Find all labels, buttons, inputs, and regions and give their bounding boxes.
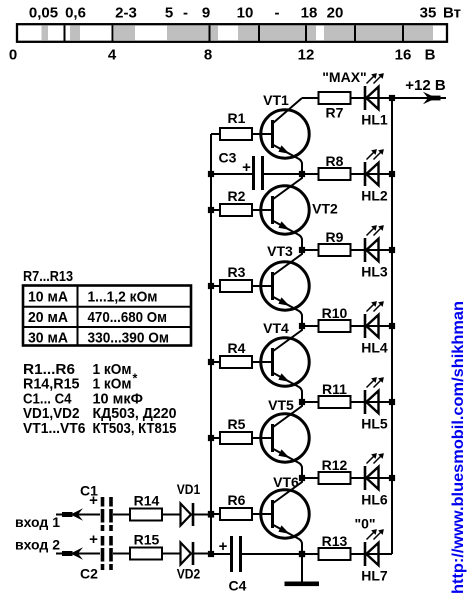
diode VD1: [181, 503, 194, 526]
transistor VT3: [261, 250, 309, 326]
wire node to R8: [302, 173, 319, 175]
wire R9 to HL3: [351, 249, 393, 251]
resistor R7: [319, 92, 351, 104]
svg-text:R7...R13: R7...R13: [23, 269, 73, 285]
transistor VT6: [261, 478, 309, 554]
resistor R8: [319, 168, 351, 180]
ground: [285, 582, 320, 587]
transistor VT5: [261, 402, 309, 478]
svg-text:R1...R6: R1...R6: [23, 362, 75, 378]
wire bus to R1: [211, 133, 220, 135]
svg-text:8: 8: [204, 47, 212, 64]
wire C1 to R14: [113, 514, 130, 516]
transistor VT1: [261, 98, 309, 174]
value label VT1...VT6: [23, 421, 177, 437]
resistor R15: [130, 548, 162, 560]
resistor R13: [319, 548, 351, 560]
svg-text:вход 2: вход 2: [15, 537, 60, 553]
wire input 2: [56, 553, 100, 555]
wire node to R7: [302, 97, 319, 99]
node HL3 cathode rail: [389, 247, 395, 253]
svg-text:9: 9: [202, 5, 210, 22]
resistor R4: [220, 356, 252, 368]
svg-text:VT6: VT6: [273, 474, 299, 490]
node collector VT4/emitter VT3: [299, 323, 305, 329]
svg-text:HL3: HL3: [361, 264, 388, 280]
node HL2 cathode rail: [389, 171, 395, 177]
svg-text:R9: R9: [326, 229, 344, 245]
wire R6 to base VT6: [252, 513, 271, 515]
svg-text:10: 10: [237, 5, 254, 22]
svg-text:18: 18: [301, 5, 318, 22]
svg-text:4: 4: [108, 47, 117, 64]
svg-text:R12: R12: [322, 457, 348, 473]
svg-text:VT4: VT4: [263, 320, 289, 336]
value label C1... C4: [23, 391, 143, 407]
svg-text:VT2: VT2: [312, 201, 338, 217]
wire left base bus: [210, 134, 212, 554]
svg-text:R14: R14: [134, 493, 160, 509]
svg-text:C1: C1: [80, 483, 98, 499]
svg-text:0: 0: [9, 47, 17, 64]
wire VD1 to bus: [194, 514, 211, 516]
svg-text:*: *: [133, 372, 138, 386]
svg-text:C2: C2: [80, 566, 98, 582]
node collector VT2/emitter VT1: [299, 171, 305, 177]
svg-text:VT5: VT5: [268, 397, 294, 413]
svg-text:VT1: VT1: [263, 92, 289, 108]
resistor R10: [319, 320, 351, 332]
wire node to R9: [302, 249, 319, 251]
svg-text:VD2: VD2: [177, 566, 201, 582]
svg-text:10 мА: 10 мА: [28, 289, 68, 306]
svg-text:R1: R1: [228, 110, 246, 126]
wire bus to C3: [211, 173, 252, 175]
svg-text:R8: R8: [326, 153, 344, 169]
svg-text:35: 35: [420, 5, 437, 22]
LED HL3: [365, 225, 384, 262]
svg-text:"MAX": "MAX": [322, 69, 366, 85]
svg-text:HL4: HL4: [361, 340, 388, 356]
svg-text:HL7: HL7: [361, 568, 388, 584]
node emitter VT6 / C4 / R13: [299, 551, 305, 557]
svg-text:В: В: [425, 47, 436, 64]
resistor R9: [319, 244, 351, 256]
svg-text:+: +: [242, 159, 251, 176]
svg-text:http://www.bluesmobil.com/shik: http://www.bluesmobil.com/shikhman: [450, 301, 467, 594]
svg-text:C1... C4: C1... C4: [23, 391, 72, 407]
resistor R14: [130, 509, 162, 521]
svg-text:HL6: HL6: [361, 492, 388, 508]
wire R7 to HL1: [351, 97, 393, 99]
svg-text:HL5: HL5: [361, 416, 388, 432]
wire node to R13: [302, 553, 319, 555]
capacitor C3: [254, 156, 263, 190]
wire bus to R4: [211, 361, 220, 363]
wire node to R10: [302, 325, 319, 327]
wire input 1: [56, 514, 100, 516]
wire VD2 to bus: [194, 553, 211, 555]
svg-text:C4: C4: [229, 578, 247, 594]
capacitor C1: [103, 497, 112, 531]
svg-text:1 кОм: 1 кОм: [93, 362, 132, 378]
arrow input 2: [62, 547, 83, 560]
svg-text:R13: R13: [322, 533, 348, 549]
resistor R1: [220, 128, 252, 140]
value label VD1,VD2: [23, 406, 177, 422]
svg-text:0,6: 0,6: [65, 5, 86, 22]
svg-text:HL2: HL2: [361, 188, 388, 204]
wire R4 to base VT4: [252, 361, 271, 363]
wire R12 to HL6: [351, 477, 393, 479]
arrow input 1: [62, 508, 83, 521]
wire +12V right rail: [391, 98, 393, 554]
svg-text:R11: R11: [322, 381, 347, 397]
svg-text:R10: R10: [322, 305, 348, 321]
wire R10 to HL4: [351, 325, 393, 327]
resistor R12: [319, 472, 351, 484]
node bus/R5: [208, 435, 214, 441]
LED HL4: [365, 301, 384, 338]
value label R14,R15: [23, 372, 138, 393]
node HL6 cathode rail: [389, 475, 395, 481]
node collector VT3/emitter VT2: [299, 247, 305, 253]
node bus/VD1/R6: [208, 511, 214, 517]
wire R8 to HL2: [351, 173, 393, 175]
wire bus to R5: [211, 437, 220, 439]
arrow +12V: [423, 92, 441, 105]
resistor R6: [220, 508, 252, 520]
svg-text:R15: R15: [134, 532, 160, 548]
wire C2 to R15: [113, 553, 130, 555]
transistor VT2: [261, 174, 309, 250]
LED HL1: [365, 73, 384, 110]
svg-text:Вт: Вт: [443, 5, 461, 22]
svg-text:470...680 Ом: 470...680 Ом: [88, 309, 168, 326]
wire R1 to base VT1: [252, 133, 271, 135]
wire to +12V: [392, 97, 446, 99]
svg-text:5: 5: [165, 5, 173, 22]
node bus/C4: [208, 551, 214, 557]
svg-text:+: +: [219, 538, 228, 555]
svg-text:КД503, Д220: КД503, Д220: [93, 406, 177, 422]
svg-text:R5: R5: [228, 416, 246, 432]
capacitor C2: [103, 536, 112, 570]
wire R5 to base VT5: [252, 437, 271, 439]
svg-text:20 мА: 20 мА: [28, 309, 68, 326]
node bus/R4: [208, 359, 214, 365]
wire R2 to base VT2: [252, 209, 271, 211]
svg-text:VD1,VD2: VD1,VD2: [23, 406, 80, 422]
wire bus to C4: [211, 553, 230, 555]
svg-text:R3: R3: [228, 264, 246, 280]
svg-text:-: -: [183, 5, 188, 22]
svg-text:R4: R4: [228, 340, 246, 356]
wire C3 to node: [264, 173, 302, 175]
resistor R5: [220, 432, 252, 444]
node bus/R3: [208, 283, 214, 289]
wire R15 to VD2: [162, 553, 180, 555]
wire bus to R6: [211, 513, 220, 515]
svg-text:R2: R2: [228, 188, 246, 204]
wire R14 to VD1: [162, 514, 180, 516]
svg-text:2-3: 2-3: [115, 5, 137, 22]
value label R1...R6: [23, 362, 132, 378]
svg-text:+12 В: +12 В: [405, 77, 446, 94]
svg-text:VD1: VD1: [177, 481, 201, 497]
svg-text:330...390 Ом: 330...390 Ом: [88, 330, 170, 347]
node bus/R6: [208, 511, 214, 517]
node collector VT6/emitter VT5: [299, 475, 305, 481]
svg-text:R7: R7: [326, 105, 344, 121]
resistor R11: [319, 396, 351, 408]
power scale bar: [17, 24, 447, 42]
svg-text:12: 12: [298, 47, 315, 64]
svg-text:КТ503, КТ815: КТ503, КТ815: [93, 421, 177, 437]
transistor VT4: [261, 326, 309, 402]
wire bus to R2: [211, 209, 220, 211]
svg-text:1...1,2 кОм: 1...1,2 кОм: [88, 289, 158, 306]
node bus/C3: [208, 171, 214, 177]
svg-text:20: 20: [327, 5, 344, 22]
LED HL7: [365, 529, 384, 566]
wire to ground: [301, 554, 303, 582]
LED HL6: [365, 453, 384, 490]
diode VD2: [181, 542, 194, 565]
resistor R2: [220, 204, 252, 216]
LED HL5: [365, 377, 384, 414]
wire node to R11: [302, 401, 319, 403]
svg-text:R14,R15: R14,R15: [23, 377, 80, 393]
svg-text:HL1: HL1: [361, 112, 388, 128]
svg-text:10 мкФ: 10 мкФ: [93, 391, 144, 407]
svg-text:1 кОм: 1 кОм: [93, 377, 132, 393]
wire R11 to HL5: [351, 401, 393, 403]
node HL5 cathode rail: [389, 399, 395, 405]
wire bus to R3: [211, 285, 220, 287]
table R7-R13 values: [23, 286, 191, 347]
resistor R3: [220, 280, 252, 292]
svg-text:30 мА: 30 мА: [28, 330, 68, 347]
node HL1 cathode rail: [389, 95, 395, 101]
LED HL2: [365, 149, 384, 186]
capacitor C4: [232, 536, 241, 572]
svg-text:"0": "0": [354, 516, 375, 532]
node collector VT5/emitter VT4: [299, 399, 305, 405]
svg-text:0,05: 0,05: [29, 5, 58, 22]
svg-text:VT1...VT6: VT1...VT6: [23, 421, 86, 437]
wire R3 to base VT3: [252, 285, 271, 287]
svg-text:вход 1: вход 1: [15, 514, 60, 530]
wire C4 to node: [242, 553, 302, 555]
wire R13 to HL7: [351, 553, 393, 555]
svg-text:C3: C3: [219, 150, 237, 166]
svg-text:+: +: [89, 531, 98, 548]
node collector VT7/emitter VT6: [299, 551, 305, 557]
node HL4 cathode rail: [389, 323, 395, 329]
node bus/R2: [208, 207, 214, 213]
svg-text:-: -: [275, 5, 280, 22]
svg-text:VT3: VT3: [267, 243, 293, 259]
wire node to R12: [302, 477, 319, 479]
svg-text:R6: R6: [228, 492, 246, 508]
svg-text:16: 16: [395, 47, 412, 64]
